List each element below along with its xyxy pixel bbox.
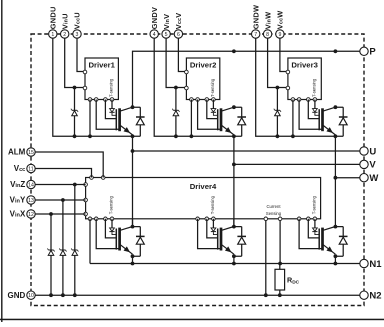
wire VinY pin to Driver4 (35, 199, 85, 201)
junction U output rail tap (131, 149, 135, 153)
junction input zener / GND rail (73, 293, 77, 297)
wire VinV pin to Driver2 input (166, 38, 186, 87)
pin 3 (VccU) (73, 12, 82, 38)
transistor Q1 (high-side IGBT U-phase) (116, 107, 132, 135)
pin 4 (GNDV) (150, 7, 159, 38)
pin 8 (VinW) (263, 12, 272, 39)
svg-text:N1: N1 (369, 259, 382, 270)
svg-text:T-sensing: T-sensing (108, 78, 113, 97)
wire Driver2 reference to V emitter rail (190, 100, 192, 137)
junction Y emitter node (232, 254, 236, 258)
driver4 bottom terminals (Z group) (297, 217, 316, 221)
gate clamp diode (Driver3) (312, 100, 319, 116)
wire Driver2 gate drive (207, 100, 218, 119)
module outline (dashed package border) (31, 34, 364, 306)
wire Driver4 reference to N1 rail (89, 219, 91, 264)
transistor Q3 (high-side IGBT W-phase) (319, 107, 335, 135)
junction Y collector node (232, 225, 236, 229)
freewheel diode D1 (U-phase high side) (133, 107, 145, 136)
svg-text:Sensing: Sensing (266, 211, 282, 216)
junction W collector / freewheel diode (334, 105, 338, 109)
pin 5 (VinV) (162, 14, 171, 38)
pin N2 (360, 291, 382, 302)
pin U (360, 146, 377, 157)
freewheel diode D3 (W-phase high side) (335, 107, 347, 136)
wire Driver1 gate drive (105, 100, 116, 119)
junction zener / U emitter rail (73, 134, 77, 138)
junction X emitter node (131, 254, 135, 258)
pin 7 (GNDW) (251, 5, 260, 38)
wire Driver3 gate drive (308, 100, 319, 119)
driver4 bottom terminals (Y group) (196, 217, 215, 221)
junction VinW / zener tap (276, 86, 280, 90)
junction VinV / zener tap (174, 86, 178, 90)
driver U4 (Driver4 low-side gate driver / protection IC) (84, 176, 321, 219)
svg-text:Driver3: Driver3 (291, 60, 318, 69)
pin 15 (ALM) (8, 148, 35, 157)
svg-text:T-sensing: T-sensing (210, 78, 215, 97)
svg-text:GNDW: GNDW (251, 5, 260, 29)
junction V output rail tap (232, 163, 236, 167)
junction driver ref / U emitter rail (88, 134, 92, 138)
wire Driver1 reference to U emitter rail (89, 100, 91, 137)
svg-text:8: 8 (266, 32, 269, 38)
junction Rdc / GND rail (278, 293, 282, 297)
wire V output rail to pin V (234, 163, 360, 165)
junction V emitter node (232, 134, 236, 138)
junction Y emitter / N1 rail (232, 262, 236, 266)
svg-text:GND: GND (8, 291, 26, 300)
driver U2 (Driver2 high-side gate driver) (185, 58, 220, 101)
wire Driver4 shunt kelvin sense to GND rail (265, 219, 267, 295)
wire W output rail to pin W (335, 177, 359, 179)
wire GNDW pin to W emitter rail (256, 38, 336, 136)
wire Y emitter to N1 rail (233, 256, 235, 263)
svg-text:W: W (369, 173, 378, 184)
svg-text:T-sensing: T-sensing (108, 195, 113, 214)
junction W emitter node (334, 134, 338, 138)
svg-text:Current: Current (267, 204, 282, 209)
junction Z emitter node (334, 254, 338, 258)
svg-text:13: 13 (28, 198, 34, 204)
wire Driver4 current sense to N1 rail (279, 219, 281, 264)
pin 11 (Vcc) (14, 164, 35, 173)
junction sense / GND rail (264, 293, 268, 297)
svg-text:1: 1 (51, 32, 54, 38)
svg-text:7: 7 (254, 32, 257, 38)
wire X emitter to N1 rail (132, 256, 134, 263)
zener diode DUz (VinU clamp) (71, 88, 78, 137)
wire VccV pin to Driver2 supply (178, 38, 186, 71)
svg-text:12: 12 (28, 212, 34, 218)
wire U output column (high-side emitter to low-side collector) (132, 136, 134, 226)
resistor Rdc (shunt) (275, 264, 285, 296)
zener diode DWz (VinW clamp) (274, 88, 281, 137)
wire GNDU pin to U emitter rail (53, 38, 133, 136)
junction U collector / freewheel diode (131, 105, 135, 109)
junction P rail / V-phase collector (232, 49, 236, 53)
gate clamp diode (low side Y) (211, 219, 218, 235)
svg-text:T-sensing: T-sensing (210, 195, 215, 214)
freewheel diode D4 (low side X) (133, 227, 145, 257)
transistor Q2 (high-side IGBT V-phase) (218, 107, 234, 135)
svg-text:T-sensing: T-sensing (311, 195, 316, 214)
pin 6 (VccV) (174, 13, 183, 39)
svg-text:V: V (369, 160, 376, 171)
wire VccU pin to Driver1 supply (77, 38, 85, 71)
pin W (360, 173, 379, 184)
freewheel diode D2 (V-phase high side) (234, 107, 246, 136)
gate clamp diode (low side X) (109, 219, 116, 235)
svg-text:3: 3 (76, 32, 79, 38)
junction P rail / W-phase collector (334, 49, 338, 53)
svg-text:5: 5 (165, 32, 168, 38)
wire U output column inside Driver4 (132, 177, 134, 227)
pin 9 (VccW) (276, 10, 285, 38)
junction U emitter node (131, 134, 135, 138)
junction driver ref / V emitter rail (190, 134, 194, 138)
transistor Q5 (low-side IGBT Y) (218, 227, 234, 255)
svg-text:15: 15 (28, 150, 34, 156)
junction zener / V emitter rail (174, 134, 178, 138)
wire U output rail to pin U (133, 150, 360, 152)
junction VinX / input zener (49, 212, 53, 216)
driver U3 (Driver3 high-side gate driver) (286, 58, 321, 101)
transistor Q6 (low-side IGBT Z) (319, 227, 335, 255)
junction VinU / zener tap (73, 86, 77, 90)
svg-text:U: U (369, 146, 376, 157)
svg-text:ALM: ALM (8, 148, 26, 157)
wire N1 rail (90, 263, 360, 265)
wire VinU pin to Driver1 input (65, 38, 85, 87)
transistor Q4 (low-side IGBT X) (116, 227, 132, 255)
freewheel diode D6 (low side Z) (335, 227, 347, 257)
wire ALM pin to Driver4 (35, 152, 103, 178)
pin 10 (GND) (8, 291, 36, 300)
svg-text:9: 9 (278, 32, 281, 38)
svg-text:T-sensing: T-sensing (311, 78, 316, 97)
junction input zener / GND rail (49, 293, 53, 297)
wire GNDV pin to V emitter rail (154, 38, 234, 136)
wire Driver4 gate drive (Z) (308, 219, 319, 238)
svg-text:2: 2 (63, 32, 66, 38)
pin 2 (VinU) (60, 13, 69, 38)
wire Driver4 gate drive (X) (105, 219, 116, 238)
pin N1 (360, 259, 382, 270)
wire V output column (high-side emitter to low-side collector) (233, 136, 235, 226)
wire W output column (high-side emitter to low-side collector) (334, 136, 336, 226)
wire Driver1 emitter sense (96, 100, 119, 130)
pin 14 (VinZ) (10, 180, 35, 189)
svg-text:Driver2: Driver2 (190, 60, 217, 69)
gate clamp diode (Driver2) (211, 100, 218, 116)
wire Driver4 emitter sense (X) (96, 219, 119, 249)
wire Driver2 emitter sense (198, 100, 221, 130)
junction zener / W emitter rail (276, 134, 280, 138)
svg-text:10: 10 (28, 293, 34, 299)
wire Driver4 emitter sense (Y) (198, 219, 221, 249)
pin 13 (VinY) (10, 196, 36, 205)
wire VinW pin to Driver3 input (268, 38, 288, 87)
wire Driver3 reference to W emitter rail (292, 100, 294, 137)
pin 12 (VinX) (10, 210, 36, 219)
terminal driver4 sense B (278, 217, 282, 221)
wire VinX pin to Driver4 (35, 213, 85, 215)
label current sensing (inside Driver4) (266, 204, 282, 216)
svg-text:11: 11 (28, 166, 33, 172)
freewheel diode D5 (low side Y) (234, 227, 246, 257)
junction X emitter / N1 rail (131, 262, 135, 266)
svg-text:GNDU: GNDU (49, 6, 58, 29)
wire GND rail (control ground to N2) (35, 294, 360, 296)
driver U1 (Driver1 high-side gate driver) (83, 58, 118, 101)
gate clamp diode (Driver1) (109, 100, 116, 116)
svg-text:Driver4: Driver4 (190, 182, 217, 191)
junction VinY / input zener (61, 198, 65, 202)
terminal driver4 sense A (264, 217, 268, 221)
wire Driver3 emitter sense (299, 100, 322, 130)
svg-text:P: P (369, 47, 376, 58)
pin P (360, 47, 377, 58)
zener diode (VinY input clamp) (59, 200, 66, 295)
junction VinZ / input zener (73, 183, 77, 187)
junction current sense / N1 rail (278, 262, 282, 266)
svg-text:14: 14 (28, 182, 34, 188)
gate clamp diode (low side Z) (312, 219, 319, 235)
wire V output column inside Driver4 (233, 177, 235, 227)
junction driver ref / W emitter rail (291, 134, 295, 138)
wire Z emitter to N1 rail (334, 256, 336, 263)
zener diode DVz (VinV clamp) (172, 88, 179, 137)
junction X collector node (131, 225, 135, 229)
junction V collector / freewheel diode (232, 105, 236, 109)
wire VinZ pin to Driver4 (35, 184, 85, 186)
svg-text:GNDV: GNDV (150, 7, 159, 29)
driver4 bottom terminals (X group) (88, 217, 114, 221)
junction Z emitter / N1 rail (334, 262, 338, 266)
svg-text:Driver1: Driver1 (88, 60, 115, 69)
junction W output rail tap (334, 176, 338, 180)
wire Driver4 gate drive (Y) (207, 219, 218, 238)
svg-text:6: 6 (177, 32, 180, 38)
wire Vcc pin to Driver4 (35, 169, 91, 178)
pin V (360, 160, 377, 171)
junction Z collector node (334, 225, 338, 229)
svg-text:N2: N2 (369, 291, 381, 302)
wire Driver4 emitter sense (Z) (299, 219, 322, 249)
pin 1 (GNDU) (49, 6, 58, 38)
wire P rail (top DC bus) (133, 51, 360, 107)
svg-text:4: 4 (153, 32, 156, 38)
zener diode (VinX input clamp) (47, 214, 54, 295)
zener diode (VinZ input clamp) (71, 185, 78, 296)
wire VccW pin to Driver3 supply (280, 38, 288, 71)
junction input zener / GND rail (61, 293, 65, 297)
